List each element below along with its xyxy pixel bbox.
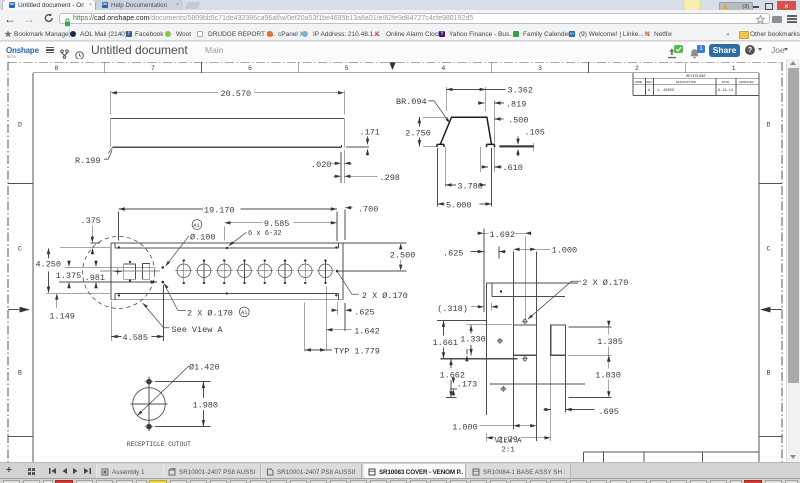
svg-text:4.585: 4.585 (123, 333, 149, 343)
dimensions for plate (46, 208, 406, 352)
svg-text:2: 2 (635, 65, 639, 72)
.105 (517, 137, 519, 157)
svg-text:.173: .173 (457, 379, 477, 389)
svg-text:Ø.100: Ø.100 (190, 233, 216, 243)
svg-text:.105: .105 (525, 127, 545, 137)
svg-text:7: 7 (151, 65, 155, 72)
svg-text:.700: .700 (358, 205, 378, 215)
inner stepped lines (115, 243, 338, 248)
.695 (544, 409, 595, 411)
TYP 1.779 (305, 303, 332, 352)
svg-text:2 X Ø.170: 2 X Ø.170 (187, 308, 233, 318)
1.385 / 1.830 right (569, 327, 612, 398)
svg-text:20.570: 20.570 (221, 89, 252, 99)
svg-text:Ø1.420: Ø1.420 (189, 363, 220, 373)
svg-text:2.500: 2.500 (390, 251, 416, 261)
svg-text:2:1: 2:1 (501, 447, 515, 455)
svg-text:.500: .500 (508, 116, 528, 126)
.625 (471, 251, 506, 253)
svg-text:REVISIONS: REVISIONS (686, 75, 705, 79)
svg-text:19.170: 19.170 (204, 205, 235, 215)
9.585 (224, 223, 337, 241)
svg-text:1.980: 1.980 (193, 400, 219, 410)
svg-text:1.149: 1.149 (49, 311, 75, 321)
svg-text:A: A (648, 89, 651, 93)
svg-text:2.79: 2.79 (498, 435, 518, 445)
1.000 top (513, 248, 550, 250)
4.250 (48, 249, 50, 293)
svg-text:DESCRIPTION: DESCRIPTION (676, 81, 696, 84)
svg-text:A1: A1 (241, 310, 247, 316)
zone labels sides (18, 122, 771, 377)
4.585 (111, 285, 163, 341)
svg-text:1. ADDED: 1. ADDED (657, 89, 674, 93)
svg-text:8: 8 (55, 65, 59, 72)
svg-text:2 X Ø.170: 2 X Ø.170 (362, 291, 408, 301)
2.79 / VIEW A (486, 434, 550, 442)
svg-text:1.000: 1.000 (452, 423, 478, 433)
see view a leader (143, 303, 170, 328)
svg-text:6 x 6-32: 6 x 6-32 (248, 230, 282, 238)
svg-text:4: 4 (442, 65, 446, 72)
2 X .170 right leader (338, 272, 359, 295)
1.149 (56, 295, 58, 308)
svg-text:REV: REV (647, 81, 653, 84)
svg-text:3.780: 3.780 (457, 182, 483, 192)
.625 right (332, 302, 353, 332)
svg-text:.695: .695 (599, 407, 619, 417)
zone labels top (55, 65, 736, 72)
svg-text:B: B (18, 370, 22, 377)
svg-text:5: 5 (345, 65, 349, 72)
svg-text:.981: .981 (85, 273, 105, 283)
svg-text:.610: .610 (503, 163, 523, 173)
svg-text:(.318): (.318) (437, 304, 468, 314)
1.375 arrows tails (69, 250, 96, 288)
5.000 (438, 148, 492, 207)
sheet inner frame (33, 73, 759, 462)
svg-text:3.362: 3.362 (508, 85, 534, 95)
2.500 (339, 243, 407, 271)
1.692 (477, 232, 531, 234)
left extension lines (46, 248, 157, 294)
svg-text:1.000: 1.000 (552, 245, 578, 255)
1.000 bottom (480, 425, 537, 427)
svg-text:1.661: 1.661 (433, 338, 459, 348)
left end features (124, 264, 136, 279)
svg-text:.819: .819 (506, 99, 526, 109)
svg-text:1.330: 1.330 (460, 335, 486, 345)
.819 (478, 100, 504, 145)
svg-text:9-24-14: 9-24-14 (718, 89, 733, 93)
2 X .170 A1 leader (164, 284, 186, 311)
svg-text:.020: .020 (311, 160, 331, 170)
svg-text:4.250: 4.250 (36, 260, 62, 270)
3.780 (445, 147, 486, 187)
svg-text:6: 6 (248, 65, 252, 72)
small holes in detail (497, 318, 528, 392)
extension lines (437, 229, 612, 442)
svg-text:.298: .298 (380, 173, 400, 183)
revisions table (633, 73, 759, 96)
svg-text:A1: A1 (193, 223, 199, 229)
.173 (450, 378, 457, 396)
sheet center marks (20, 62, 771, 312)
.700 (345, 208, 353, 240)
svg-text:1.385: 1.385 (597, 337, 623, 347)
svg-text:B: B (767, 370, 771, 377)
svg-text:.171: .171 (360, 128, 380, 138)
BR.094 leader (429, 101, 450, 124)
top zone ticks (105, 62, 686, 73)
svg-text:APPROVED: APPROVED (739, 81, 754, 84)
svg-text:BR.094: BR.094 (396, 97, 427, 107)
screw hole dots (117, 246, 339, 296)
2.750 (419, 117, 448, 146)
svg-text:TYP 1.779: TYP 1.779 (334, 346, 380, 356)
svg-text:5.000: 5.000 (446, 201, 472, 211)
svg-text:2 X Ø.170: 2 X Ø.170 (582, 278, 628, 288)
svg-text:DATE: DATE (722, 81, 729, 84)
svg-text:D: D (767, 122, 771, 129)
svg-text:3: 3 (538, 65, 542, 72)
svg-text:D: D (18, 122, 22, 129)
svg-text:1.375: 1.375 (56, 271, 82, 281)
svg-text:1.830: 1.830 (595, 370, 621, 380)
1.642 (326, 286, 351, 350)
svg-text:C: C (18, 246, 22, 253)
outer outline (111, 243, 343, 300)
8 receptacle circles with crosshairs (177, 264, 191, 278)
title block top edge (584, 452, 760, 462)
2 X .170 leader (528, 281, 581, 319)
.375 (91, 226, 101, 244)
dashed detail circle (83, 236, 155, 308)
.500 (494, 118, 503, 120)
svg-text:See View A: See View A (172, 325, 224, 335)
1.330 (466, 325, 512, 356)
3.362 (446, 87, 505, 111)
svg-text:.375: .375 (81, 216, 101, 226)
19.170 (119, 209, 337, 241)
svg-text:C: C (767, 246, 771, 253)
(.318) (471, 306, 498, 308)
svg-text:1.642: 1.642 (354, 326, 380, 336)
svg-text:ZONE: ZONE (635, 81, 642, 84)
svg-text:1.692: 1.692 (490, 230, 516, 240)
dia .100 leader (166, 236, 190, 266)
svg-text:R.199: R.199 (75, 156, 101, 166)
.610 (481, 147, 502, 172)
svg-text:9.585: 9.585 (264, 219, 290, 229)
svg-text:1: 1 (732, 65, 736, 72)
svg-text:RECEPTICLE CUTOUT: RECEPTICLE CUTOUT (127, 441, 191, 448)
1.662 (446, 359, 457, 398)
1.661 (437, 321, 487, 359)
scrollbar (786, 59, 800, 462)
svg-text:.625: .625 (443, 249, 463, 259)
svg-text:2.750: 2.750 (405, 129, 431, 139)
side zone ticks (8, 184, 782, 437)
svg-text:.625: .625 (354, 308, 374, 318)
6x6-32 leader (229, 232, 247, 246)
